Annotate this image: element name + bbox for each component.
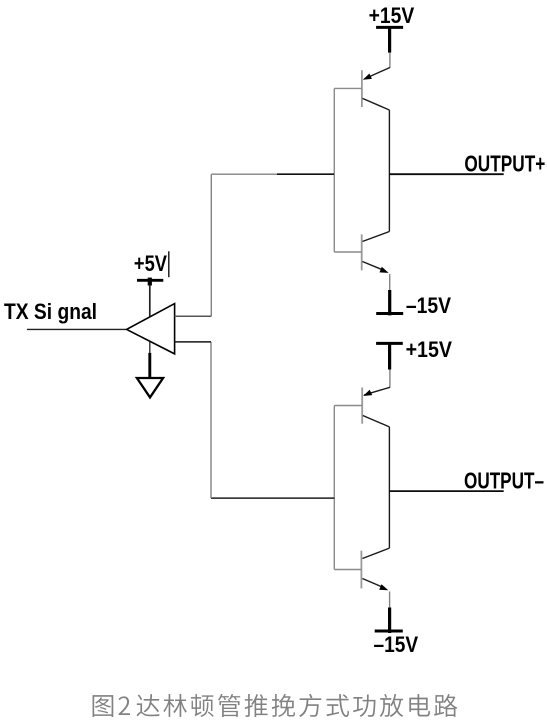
svg-text:+5V: +5V (134, 251, 167, 276)
svg-text:OUTPUT+: OUTPUT+ (464, 150, 545, 176)
svg-text:–15V: –15V (406, 293, 451, 318)
svg-text:OUTPUT–: OUTPUT– (464, 467, 544, 493)
svg-text:–15V: –15V (374, 632, 419, 657)
svg-text:+15V: +15V (406, 337, 452, 362)
svg-text:+15V: +15V (369, 3, 415, 28)
svg-text:TX Si gnal: TX Si gnal (4, 299, 97, 324)
